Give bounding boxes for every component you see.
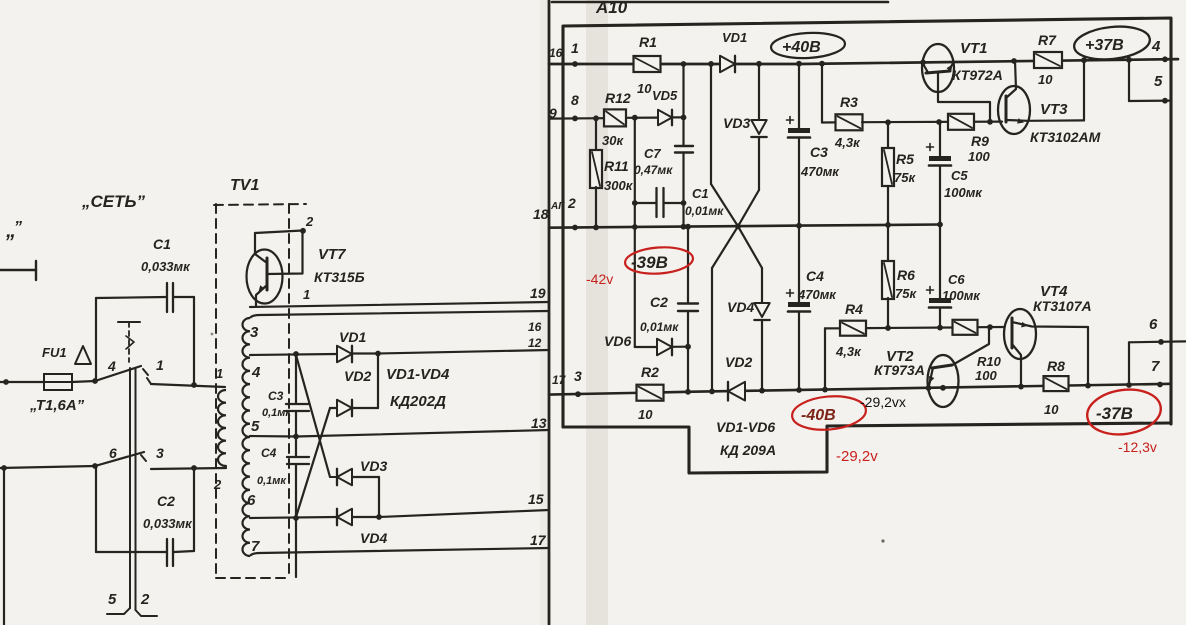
svg-text:0,1мк: 0,1мк — [262, 407, 292, 419]
svg-text:7: 7 — [251, 538, 260, 555]
svg-text:6: 6 — [247, 492, 256, 509]
svg-text:C4: C4 — [261, 446, 277, 460]
svg-text:3: 3 — [250, 324, 259, 341]
svg-text:100мк: 100мк — [944, 185, 983, 200]
svg-text:1: 1 — [216, 366, 223, 381]
svg-text:2: 2 — [140, 591, 150, 608]
svg-text:C7: C7 — [644, 146, 661, 161]
svg-text:R9: R9 — [971, 133, 989, 149]
svg-text:6: 6 — [109, 445, 117, 461]
svg-text:300к: 300к — [604, 178, 634, 193]
svg-text:-37В: -37В — [1096, 404, 1133, 423]
svg-text:16: 16 — [549, 46, 563, 60]
svg-text:C5: C5 — [951, 168, 968, 183]
svg-text:4: 4 — [107, 358, 116, 374]
svg-text:4,3к: 4,3к — [834, 135, 861, 150]
svg-text:R7: R7 — [1038, 32, 1057, 48]
svg-text:VD2: VD2 — [725, 354, 752, 370]
svg-text:R8: R8 — [1047, 358, 1065, 374]
svg-text:КД 209А: КД 209А — [720, 442, 776, 458]
svg-text:470мк: 470мк — [800, 164, 840, 179]
svg-text:0,033мк: 0,033мк — [143, 516, 193, 531]
svg-text:R12: R12 — [605, 90, 631, 106]
svg-text:-29,2v: -29,2v — [836, 448, 878, 465]
svg-text:VD1: VD1 — [339, 329, 366, 345]
svg-text:30к: 30к — [602, 133, 624, 148]
svg-text:0,033мк: 0,033мк — [141, 259, 191, 274]
svg-text:C2: C2 — [157, 493, 175, 509]
svg-text:„Т1,6А”: „Т1,6А” — [29, 397, 85, 414]
svg-text:VD4: VD4 — [360, 530, 387, 546]
svg-text:75к: 75к — [895, 286, 917, 301]
svg-text:VD3: VD3 — [723, 115, 750, 131]
svg-text:100: 100 — [968, 149, 990, 164]
svg-text:VD1-VD4: VD1-VD4 — [386, 366, 450, 383]
svg-text:+37В: +37В — [1085, 37, 1124, 54]
svg-text:13: 13 — [531, 415, 547, 431]
svg-text:C1: C1 — [692, 186, 709, 201]
svg-text:+40В: +40В — [782, 39, 821, 56]
svg-text:5: 5 — [108, 591, 117, 608]
svg-text:R1: R1 — [639, 34, 657, 50]
svg-text:8: 8 — [571, 92, 579, 108]
svg-text:10: 10 — [638, 407, 653, 422]
svg-text:VD4: VD4 — [727, 299, 754, 315]
svg-text:17: 17 — [552, 373, 567, 387]
svg-text:10: 10 — [637, 81, 652, 96]
svg-text:-39В: -39В — [631, 253, 668, 272]
svg-text:R11: R11 — [604, 158, 629, 174]
svg-text:1: 1 — [571, 40, 579, 56]
svg-text:0,1мк: 0,1мк — [257, 475, 287, 487]
svg-text:2: 2 — [567, 195, 576, 211]
svg-text:TV1: TV1 — [230, 177, 259, 194]
svg-text:19: 19 — [530, 285, 546, 301]
svg-text:12: 12 — [528, 336, 542, 350]
svg-text:VD1-VD6: VD1-VD6 — [716, 419, 775, 435]
svg-text:КТ973А: КТ973А — [874, 362, 925, 378]
svg-text:4,3к: 4,3к — [835, 344, 862, 359]
svg-text:C4: C4 — [806, 268, 824, 284]
svg-text:3: 3 — [574, 368, 582, 384]
svg-text:R4: R4 — [845, 301, 863, 317]
svg-text:R2: R2 — [641, 364, 659, 380]
svg-text:16: 16 — [528, 320, 542, 334]
svg-text:17: 17 — [530, 532, 547, 548]
svg-text:-42v: -42v — [586, 271, 613, 287]
svg-text:„СЕТЬ”: „СЕТЬ” — [81, 192, 146, 211]
svg-text:R6: R6 — [897, 267, 915, 283]
svg-text:100мк: 100мк — [942, 288, 981, 303]
svg-text:VT1: VT1 — [960, 40, 988, 57]
svg-text:C1: C1 — [153, 236, 171, 252]
svg-text:2: 2 — [213, 477, 222, 492]
svg-text:КТ972А: КТ972А — [952, 67, 1003, 83]
svg-text:C6: C6 — [948, 272, 965, 287]
svg-text:FU1: FU1 — [42, 345, 67, 360]
svg-text:R10: R10 — [977, 354, 1002, 369]
svg-text:18: 18 — [533, 206, 549, 222]
svg-text:VD1: VD1 — [722, 30, 747, 45]
svg-text:C2: C2 — [650, 294, 668, 310]
svg-text:VD6: VD6 — [604, 333, 631, 349]
svg-text:10: 10 — [1038, 72, 1053, 87]
svg-text:10: 10 — [1044, 402, 1059, 417]
svg-text:7: 7 — [1151, 358, 1160, 375]
svg-text:0,01мк: 0,01мк — [640, 320, 679, 334]
svg-text:4: 4 — [251, 364, 261, 381]
svg-text:КТ315Б: КТ315Б — [314, 269, 365, 285]
svg-text:КТ3102АМ: КТ3102АМ — [1030, 129, 1101, 145]
svg-text:75к: 75к — [894, 170, 916, 185]
svg-text:5: 5 — [251, 418, 260, 435]
svg-text:-29,2vx: -29,2vx — [860, 394, 906, 410]
svg-text:VD5: VD5 — [652, 88, 678, 103]
svg-text:-12,3v: -12,3v — [1118, 439, 1157, 455]
svg-text:АГ: АГ — [550, 201, 565, 212]
svg-text:C3: C3 — [268, 389, 284, 403]
svg-text:5: 5 — [1154, 73, 1163, 90]
svg-text:-40В: -40В — [801, 407, 836, 424]
svg-text:470мк: 470мк — [797, 287, 837, 302]
svg-text:КТ3107А: КТ3107А — [1033, 298, 1092, 314]
svg-text:VT3: VT3 — [1040, 101, 1068, 118]
svg-text:VD2: VD2 — [344, 368, 371, 384]
svg-text:КД202Д: КД202Д — [390, 393, 446, 410]
svg-text:VD3: VD3 — [360, 458, 387, 474]
svg-text:R3: R3 — [840, 94, 858, 110]
svg-text:4: 4 — [1151, 38, 1161, 55]
svg-text:C3: C3 — [810, 144, 828, 160]
svg-text:0,01мк: 0,01мк — [685, 204, 724, 218]
svg-text:1: 1 — [156, 357, 164, 373]
svg-text:VT7: VT7 — [318, 246, 346, 263]
svg-text:R5: R5 — [896, 151, 914, 167]
svg-text:3: 3 — [156, 445, 164, 461]
svg-text:0,47мк: 0,47мк — [634, 163, 673, 177]
svg-text:А10: А10 — [595, 0, 628, 17]
svg-text:2: 2 — [305, 214, 314, 229]
svg-text:6: 6 — [1149, 316, 1158, 333]
svg-text:100: 100 — [975, 368, 997, 383]
svg-text:1: 1 — [303, 287, 310, 302]
svg-text:15: 15 — [528, 491, 544, 507]
svg-text:”: ” — [14, 219, 22, 236]
